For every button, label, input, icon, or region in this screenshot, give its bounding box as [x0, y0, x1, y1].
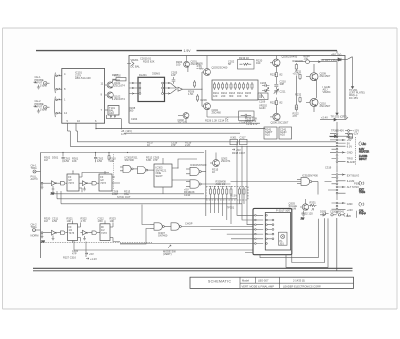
gate clock shaper D	[92, 231, 100, 235]
svg-text:ALT SYNC: ALT SYNC	[347, 185, 359, 189]
svg-text:EXT BLKG: EXT BLKG	[347, 174, 359, 178]
label C201 cluster	[140, 57, 160, 76]
connector column CN1b pins	[345, 130, 352, 138]
wire IC303 output up	[178, 159, 198, 169]
capacitor C210	[274, 78, 286, 90]
label R303	[94, 153, 104, 164]
svg-text:5P: 5P	[228, 62, 231, 66]
diode row top right	[320, 212, 347, 216]
NAND IC307a	[150, 223, 171, 230]
resistor R221 column	[293, 59, 304, 76]
delay line DL201	[138, 73, 165, 101]
svg-text:C319: C319	[325, 165, 332, 169]
svg-text:SHOT: SHOT	[156, 174, 164, 178]
transistor Q207	[295, 60, 337, 64]
resistor R219 boxed	[238, 56, 255, 69]
ground at CH-1 input	[37, 85, 40, 89]
svg-text:6.8K: 6.8K	[146, 158, 152, 162]
svg-text:R331: R331	[310, 200, 317, 204]
svg-text:47P: 47P	[153, 158, 158, 162]
inverter IC301b	[79, 181, 92, 186]
capacitor C208 boxed	[239, 111, 254, 124]
svg-text:C214 0.1: C214 0.1	[218, 118, 229, 122]
NAND IC301d	[138, 167, 155, 174]
NAND IC304a	[186, 167, 206, 175]
transistor Q205	[270, 56, 280, 72]
svg-text:LBO-507: LBO-507	[258, 279, 269, 283]
connector P301 inner shell	[265, 213, 290, 251]
label Q204	[201, 98, 222, 115]
label +C	[225, 117, 229, 121]
transistor Q203	[202, 56, 210, 76]
wire row2 down links	[73, 241, 254, 258]
connector column CN2 pins	[332, 174, 346, 200]
svg-text:4EB: 4EB	[346, 214, 351, 218]
svg-text:ADJ: ADJ	[109, 111, 115, 115]
wire IC101 pin6 stub	[95, 123, 96, 129]
svg-text:1.5K: 1.5K	[188, 92, 194, 96]
label +24V	[321, 115, 328, 119]
label R207 cluster	[112, 73, 138, 121]
connector trigger input	[31, 164, 41, 182]
label TP-204	[245, 117, 258, 126]
svg-text:K301: K301	[231, 135, 238, 139]
svg-text:2SC371: 2SC371	[178, 120, 188, 124]
svg-text:R311: R311	[132, 155, 139, 159]
transistor Q101	[105, 80, 120, 88]
label Q203	[212, 66, 228, 70]
svg-text:2-1433 (5): 2-1433 (5)	[293, 279, 305, 283]
resistor ladder in network	[209, 187, 245, 224]
gate clock shaper B	[92, 181, 99, 185]
title block text SCHEMATIC	[208, 280, 231, 284]
svg-text:1/50: 1/50	[97, 159, 103, 163]
title block outline	[190, 277, 354, 288]
transistor Q201	[184, 56, 190, 73]
NAND IC307b	[171, 223, 253, 230]
label TP203	[331, 129, 344, 133]
label R205	[197, 62, 204, 70]
wire row1 bus lower3	[61, 203, 242, 205]
transistor Q102	[105, 92, 114, 100]
label R310	[108, 153, 116, 164]
ground at IC305b	[83, 236, 86, 241]
svg-text:2SC1507: 2SC1507	[278, 121, 289, 125]
svg-text:240: 240	[221, 94, 226, 98]
label rail end +B	[331, 53, 341, 57]
diode D202 bottom feed	[329, 134, 353, 138]
transistor Q210	[306, 98, 318, 112]
svg-text:C209: C209	[259, 99, 266, 103]
wire +B bus below IC	[96, 128, 265, 129]
svg-text:R232: R232	[295, 93, 302, 97]
svg-text:1/50: 1/50	[98, 219, 104, 223]
svg-text:GAIN: GAIN	[259, 106, 265, 110]
probe cable shield bracket CH-1	[54, 73, 57, 94]
svg-text:1M: 1M	[44, 219, 48, 223]
label Q303	[289, 201, 298, 210]
lamp PL301	[279, 232, 288, 245]
svg-text:C213 47P: C213 47P	[246, 122, 258, 126]
svg-text:TRIG: TRIG	[31, 166, 37, 170]
gate clock shaper C	[61, 231, 68, 235]
svg-text:GND: GND	[347, 151, 353, 155]
svg-text:GND: GND	[347, 202, 353, 206]
svg-text:AGE 1/2: AGE 1/2	[216, 182, 226, 186]
svg-text:VERT. MODE & FINAL AMP: VERT. MODE & FINAL AMP	[242, 284, 275, 288]
svg-text:SYNC OUT: SYNC OUT	[117, 195, 131, 199]
wire bus C	[124, 132, 240, 134]
transistor Q209	[306, 64, 318, 98]
svg-text:4.7K: 4.7K	[121, 132, 127, 136]
connector cal input	[31, 223, 41, 238]
title block text model	[242, 279, 269, 283]
label R312	[146, 155, 160, 162]
svg-text:12P: 12P	[171, 73, 176, 77]
label C311	[52, 216, 116, 223]
svg-text:330NS: 330NS	[152, 72, 160, 76]
svg-text:LEADER ELECTRONICS CORP.: LEADER ELECTRONICS CORP.	[283, 284, 321, 288]
resistor R222	[293, 104, 300, 118]
wire mode bus B	[70, 131, 336, 146]
capacitor C211 variable	[274, 89, 286, 94]
wire logic section left rail	[40, 153, 42, 259]
svg-text:2SC1674: 2SC1674	[114, 97, 125, 101]
svg-text:TP301: TP301	[227, 206, 235, 210]
svg-text:C204: C204	[131, 117, 138, 121]
wire attenuator bottom rail	[207, 116, 254, 118]
label CN3	[347, 202, 353, 212]
capacitor C301 label	[62, 153, 79, 164]
resistor R231 cluster	[295, 70, 302, 110]
svg-text:1K: 1K	[295, 106, 298, 110]
svg-text:1/50: 1/50	[64, 159, 70, 163]
svg-text:R318 C317: R318 C317	[232, 151, 246, 155]
svg-text:+2.4V: +2.4V	[321, 115, 328, 119]
label R226 row	[205, 118, 229, 122]
flip-flop IC306a	[68, 221, 81, 241]
svg-text:C317: C317	[240, 135, 247, 139]
ground at IC301a	[41, 184, 44, 189]
wire CH-1 return to IC101 pin	[56, 88, 62, 90]
label Q206	[271, 121, 289, 125]
label Q210	[320, 101, 331, 108]
connector AC glyph right top	[359, 142, 369, 161]
label below Q303	[302, 211, 314, 215]
svg-text:BLANK: BLANK	[347, 160, 356, 164]
svg-text:AC: AC	[363, 142, 367, 146]
NAND IC301c	[120, 165, 138, 172]
svg-text:R225: R225	[270, 101, 277, 105]
wire delay line inputs	[129, 82, 139, 94]
svg-text:CHOP: CHOP	[185, 221, 193, 225]
label C202 cluster	[228, 58, 263, 66]
wire long drop	[336, 218, 338, 271]
svg-text:R231: R231	[295, 70, 302, 74]
title block text function	[242, 284, 275, 288]
resistor R225	[270, 98, 283, 107]
attenuator network box	[212, 80, 258, 100]
svg-text:100: 100	[304, 57, 309, 61]
connector header boxes J201	[264, 127, 277, 139]
relay box K301	[230, 135, 238, 144]
svg-text:10K: 10K	[110, 219, 115, 223]
flip-flop IC302b	[99, 171, 120, 191]
svg-text:1/50: 1/50	[52, 219, 58, 223]
svg-text:120: 120	[213, 94, 218, 98]
svg-text:6.3V: 6.3V	[347, 144, 353, 148]
svg-text:R226 1.2K: R226 1.2K	[205, 118, 218, 122]
svg-text:+24V: +24V	[347, 208, 353, 212]
label Q201	[176, 59, 200, 66]
svg-text:R203 62K: R203 62K	[143, 59, 155, 63]
svg-text:7473: 7473	[100, 181, 106, 185]
svg-text:ADJ: ADJ	[265, 133, 271, 137]
svg-text:T-306: T-306	[283, 209, 290, 213]
label CN1b	[353, 129, 359, 136]
wire chop bus	[41, 242, 153, 244]
svg-text:TRIG: TRIG	[31, 225, 37, 229]
ground at IC305a	[41, 234, 46, 244]
schematic bottom frame line 1	[33, 267, 353, 269]
svg-text:VR204: VR204	[323, 90, 331, 94]
svg-text:JW: JW	[301, 217, 305, 221]
label CN2	[347, 174, 361, 189]
svg-text:7473: 7473	[101, 231, 107, 235]
label IC307	[158, 221, 193, 237]
amplifier symbol A201	[178, 87, 193, 91]
label P301	[227, 206, 291, 213]
wire CN1 drop	[336, 166, 338, 173]
svg-text:-12V: -12V	[353, 132, 359, 136]
svg-text:C211: C211	[280, 89, 287, 93]
label R320 cluster	[44, 216, 51, 223]
label C308 cluster	[112, 189, 131, 199]
resistor R224	[270, 72, 283, 79]
label Q202	[178, 118, 188, 125]
svg-text:10K: 10K	[72, 159, 77, 163]
label I GAIN ADJ	[323, 85, 331, 94]
svg-text:160: 160	[237, 94, 242, 98]
wire nested L2	[292, 218, 325, 262]
relay box K302	[240, 135, 248, 144]
svg-text:+1.2V: +1.2V	[90, 257, 97, 261]
svg-text:R327 C316: R327 C316	[63, 256, 76, 260]
title block text drawing number	[293, 279, 305, 283]
wire TP203 stub	[336, 122, 338, 129]
NAND IC308	[297, 178, 318, 195]
wire mode bus A	[78, 131, 337, 142]
trimmer capacitor C209	[258, 93, 268, 103]
main amplifier enclosure box	[129, 56, 345, 124]
svg-text:1Vp-p: 1Vp-p	[40, 84, 47, 88]
svg-text:INPUT: INPUT	[359, 157, 367, 161]
label +B 12V	[121, 129, 132, 136]
svg-text:C320: C320	[330, 210, 337, 214]
resistor cluster R206-R208	[188, 80, 199, 102]
divider dashed right	[355, 137, 357, 165]
svg-text:1K: 1K	[147, 143, 150, 147]
op-amp IC101 vertical preamp block	[62, 69, 105, 124]
resistor R331	[309, 200, 317, 210]
label Q302	[212, 157, 231, 174]
transistor Q206	[270, 107, 280, 121]
svg-text:1Vp-p: 1Vp-p	[40, 108, 47, 112]
svg-text:+5V: +5V	[89, 252, 94, 256]
one-shot IC303	[154, 158, 190, 194]
transistor Q303	[300, 199, 309, 210]
wire vertical V1	[205, 150, 207, 216]
wire row2 feedback	[81, 223, 121, 242]
svg-text:100: 100	[176, 63, 181, 67]
svg-text:7473: 7473	[69, 231, 75, 235]
svg-text:+B(1.9V): +B(1.9V)	[331, 53, 341, 57]
wire collector line	[295, 76, 297, 105]
connector glyph right mid	[359, 181, 365, 194]
wire CH-1 hot to IC101 pin	[47, 75, 62, 84]
inverter IC305a	[41, 230, 60, 235]
capacitor C205	[171, 70, 178, 83]
wire delay line outputs to emitter follower	[164, 82, 178, 94]
svg-text:33P: 33P	[280, 82, 285, 86]
label CN1	[347, 135, 356, 164]
label diode row	[320, 210, 356, 218]
transistor Q302	[210, 153, 219, 167]
svg-text:D305: D305	[320, 210, 327, 214]
label IC304	[190, 163, 207, 167]
svg-text:Model: Model	[242, 279, 249, 283]
wire CRT plate lead right	[351, 57, 353, 89]
svg-text:360: 360	[129, 109, 134, 113]
label TP-201	[349, 88, 365, 100]
diode D201 output line	[322, 57, 352, 61]
wire row1 bus lower1	[53, 193, 204, 195]
label +5V arrows	[85, 252, 97, 261]
svg-text:47P: 47P	[72, 252, 77, 256]
connector P301 right pins	[266, 215, 274, 245]
connector P301 left pins	[255, 215, 264, 245]
svg-text:1.9V: 1.9V	[184, 49, 192, 53]
svg-text:270: 270	[293, 114, 298, 118]
svg-text:2SC1507: 2SC1507	[320, 104, 331, 108]
svg-text:HEATER: HEATER	[359, 149, 369, 153]
wire P301 bottom exit	[245, 219, 318, 258]
ground at IC301b	[83, 187, 86, 192]
junction dots on network	[210, 186, 232, 187]
capacitor C206	[260, 81, 269, 87]
svg-text:10K: 10K	[67, 219, 72, 223]
connector column CN1 pins	[330, 130, 346, 166]
wire feeds into P301	[120, 141, 254, 243]
connector column CN3 pins	[332, 202, 346, 213]
svg-text:DC BAL: DC BAL	[131, 65, 141, 69]
svg-text:Q206: Q206	[271, 121, 278, 125]
svg-text:DC 45V: DC 45V	[349, 96, 358, 100]
wire +24V feed	[320, 117, 348, 121]
svg-text:R224: R224	[270, 73, 277, 77]
svg-text:2SC460: 2SC460	[218, 66, 228, 70]
connector J101 CH-1 input	[34, 75, 48, 87]
label IC308	[302, 173, 318, 177]
svg-text:TRIG: TRIG	[359, 190, 365, 194]
svg-text:R341: R341	[338, 210, 345, 214]
transistor Q204	[202, 103, 210, 117]
wire CRT plate lead left	[336, 62, 338, 115]
label IC301	[125, 155, 139, 162]
svg-text:2.2K: 2.2K	[185, 143, 191, 147]
ground mid row2	[52, 236, 55, 241]
label Q205	[282, 55, 298, 59]
label Q101	[114, 81, 125, 88]
svg-text:VR201: VR201	[131, 58, 139, 62]
svg-text:2SC1674: 2SC1674	[114, 84, 125, 88]
wire right bus joins	[325, 152, 332, 190]
transformer T101 block	[105, 106, 119, 118]
svg-text:R207: R207	[112, 73, 119, 77]
label C319	[230, 165, 332, 197]
connector glyph right low	[359, 202, 366, 215]
label Q209	[320, 71, 331, 78]
wire nested L3	[286, 218, 328, 267]
svg-text:C206: C206	[260, 81, 267, 85]
svg-text:AUTO: AUTO	[31, 177, 38, 181]
capacitor C207 variable	[262, 88, 269, 92]
wire IC101 pin10 stub	[76, 123, 78, 131]
svg-text:2SC1507: 2SC1507	[320, 74, 331, 78]
svg-text:ADJ: ADJ	[280, 133, 286, 137]
svg-text:TP-202 (CRT): TP-202 (CRT)	[331, 115, 347, 119]
ground mid row1	[51, 186, 55, 196]
label C318 cluster	[147, 140, 192, 147]
svg-text:301: 301	[280, 242, 285, 246]
svg-text:LBO-514-100: LBO-514-100	[75, 76, 91, 80]
label R316 cluster	[184, 187, 195, 197]
wire CH-2 return to IC101 pin	[56, 112, 62, 114]
svg-text:7473: 7473	[68, 181, 74, 185]
svg-text:SN7400: SN7400	[197, 163, 207, 167]
potentiometer VR201 on box left edge	[127, 58, 140, 69]
svg-text:SN7400: SN7400	[158, 233, 168, 237]
wire gate row2 inputs	[120, 205, 150, 245]
svg-text:R209: R209	[201, 98, 208, 102]
svg-text:4.7K: 4.7K	[81, 219, 87, 223]
svg-text:(12V): (12V)	[126, 129, 132, 133]
wire +1.9V power rail	[36, 51, 337, 54]
label +5V mid feeds	[232, 148, 246, 155]
resistor R202	[112, 74, 126, 81]
svg-text:D301: D301	[52, 155, 59, 159]
flip-flop IC302a	[67, 171, 82, 191]
svg-text:910: 910	[256, 61, 261, 65]
wire T101 output bus	[106, 115, 121, 129]
connector P301 outer shell	[253, 208, 292, 254]
wire CH-2 hot to IC101 pin	[47, 99, 62, 108]
NAND IC304b	[186, 180, 231, 188]
gate clock shaper A	[61, 181, 68, 185]
wire IC101 pin5 stub	[68, 123, 71, 131]
svg-text:10K: 10K	[190, 190, 195, 194]
wire dotted divider row1	[113, 154, 115, 190]
wire logic section top bus	[41, 152, 205, 153]
svg-text:1Vp-p: 1Vp-p	[359, 211, 366, 215]
wire row1 feedback	[73, 171, 110, 193]
label Q102	[114, 95, 125, 102]
svg-text:360: 360	[229, 94, 234, 98]
svg-text:1K: 1K	[212, 170, 215, 174]
ground near P301	[301, 211, 306, 221]
label R305	[216, 179, 227, 186]
svg-text:2SA495: 2SA495	[288, 55, 298, 59]
